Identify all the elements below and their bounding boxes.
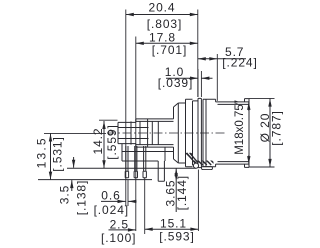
svg-text:[.803]: [.803] [147, 17, 182, 31]
svg-text:[.138]: [.138] [74, 180, 88, 215]
svg-text:3.5: 3.5 [58, 185, 72, 204]
svg-text:M18x0.75″: M18x0.75″ [234, 100, 246, 155]
svg-text:[.039]: [.039] [158, 76, 193, 90]
svg-text:[.701]: [.701] [152, 43, 187, 57]
svg-text:14.2: 14.2 [91, 128, 105, 155]
svg-text:[.144]: [.144] [175, 175, 189, 210]
svg-text:[.531]: [.531] [51, 136, 65, 171]
svg-text:[.787]: [.787] [270, 110, 284, 145]
svg-text:[.593]: [.593] [159, 229, 194, 243]
svg-text:13.5: 13.5 [35, 136, 49, 168]
svg-text:2.5: 2.5 [110, 217, 129, 231]
svg-text:[.559]: [.559] [105, 124, 119, 159]
svg-text:[.224]: [.224] [222, 56, 257, 70]
svg-text:20.4: 20.4 [149, 1, 176, 15]
svg-text:0.6: 0.6 [101, 188, 120, 202]
svg-text:15.1: 15.1 [160, 216, 187, 230]
svg-text:[.100]: [.100] [101, 231, 136, 245]
svg-text:[.024]: [.024] [94, 203, 129, 217]
